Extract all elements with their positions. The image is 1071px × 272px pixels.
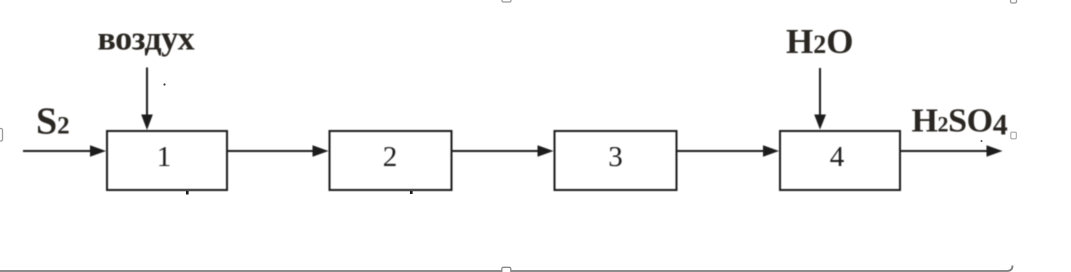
svg-text:4: 4 (830, 141, 845, 173)
selection handle left middle (0, 129, 3, 142)
selection border bottom (0, 266, 1013, 272)
wire vertical arrow H2O into box 4 (814, 68, 826, 130)
box 4 (780, 131, 900, 190)
wire arrow box 3 to box 4 (678, 145, 780, 157)
svg-text:3: 3 (608, 141, 623, 173)
speck near output arrow (981, 140, 983, 142)
wire arrow box 1 to box 2 (227, 145, 329, 157)
svg-text:H2SO4: H2SO4 (912, 103, 1008, 142)
selection handle bottom middle (502, 267, 511, 272)
svg-text:H2O: H2O (786, 22, 853, 61)
svg-text:1: 1 (157, 141, 172, 173)
speck under vozdukh arrow (163, 83, 165, 85)
speck under box 1 (186, 191, 189, 195)
wire arrow box 2 to box 3 (453, 145, 554, 157)
selection handle right middle (1011, 132, 1017, 139)
svg-text:S2: S2 (36, 101, 70, 143)
box 1 (107, 131, 227, 190)
box 2 (330, 131, 452, 190)
svg-text:воздух: воздух (98, 21, 195, 58)
speck under box 2 (410, 191, 413, 194)
wire vertical arrow vozdukh into box 1 (141, 68, 153, 131)
selection handle top right (1011, 0, 1017, 3)
box 3 (555, 131, 677, 190)
svg-text:2: 2 (383, 141, 398, 173)
wire S2 feed arrow into box 1 (23, 145, 106, 157)
wire output arrow box 4 to H2SO4 (901, 145, 1003, 157)
selection handle top middle (502, 0, 511, 2)
